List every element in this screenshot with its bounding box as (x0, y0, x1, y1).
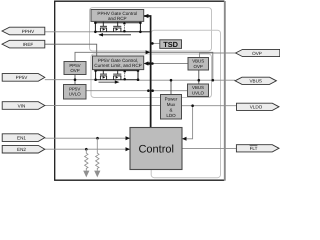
wire: PPHV pin to FET rail (45, 31, 96, 33)
svg-text:VLDO: VLDO (250, 105, 263, 110)
wire: VIN pin to Power Mux (45, 104, 161, 106)
arrow: PP5V forward current direction (99, 80, 120, 83)
svg-text:and RCP: and RCP (108, 16, 127, 21)
node: junction dots (74, 21, 214, 150)
svg-text:IREF: IREF (23, 42, 34, 47)
svg-text:PPHV: PPHV (22, 29, 35, 34)
block: PP5V OVP (64, 62, 86, 75)
pin OVP (236, 49, 280, 56)
container: PP5V power path region (91, 54, 212, 98)
ground (R2) (94, 171, 100, 178)
container: PPHV power path region (90, 8, 212, 51)
transistor Q2 (PPHV FET right) (113, 21, 121, 31)
transistor Q4 (PP5V FET right) (113, 70, 121, 80)
wire: TSD to VBUS bus (151, 42, 160, 44)
wire: PP5V pin to FET rail (45, 79, 96, 81)
pin EN2 (2, 145, 45, 153)
pin EN1 (2, 134, 45, 142)
block: VBUS OVP (188, 58, 209, 71)
arrow: sense line into control region (146, 50, 151, 54)
arrow: into Control right side (182, 137, 187, 141)
pin PPHV (2, 27, 45, 35)
block: Control (130, 128, 182, 170)
svg-text:Power: Power (165, 96, 178, 101)
wire: OVP pin to VBUS OVP block (200, 53, 236, 58)
svg-text:Current Limit, and RCP: Current Limit, and RCP (94, 63, 142, 68)
arrow: into PPHV gate control block (144, 14, 149, 18)
wire: VLDO branch down to Control (182, 106, 193, 139)
wire: stub VBUS OVP through VBUS wire to VBUS UVLO (198, 70, 200, 84)
pin IREF (2, 40, 45, 48)
resistor R2 (EN1 pulldown) (96, 138, 99, 170)
wire: VBUS vertical bus line 1 (144, 16, 151, 128)
transistor Q3 (PP5V FET left) (100, 70, 107, 80)
svg-text:PP5V: PP5V (16, 75, 29, 80)
block: TSD (160, 40, 182, 49)
wire: VBUS OVP to PP5V gate control (sense) (144, 63, 188, 65)
svg-text:TSD: TSD (163, 40, 178, 49)
block: PP5V UVLO (64, 85, 87, 100)
wire: stub PP5V OVP through PP5V wire to PP5V UVLO (74, 75, 76, 85)
svg-text:OVP: OVP (70, 68, 79, 73)
wire: VBUS main rail to VBUS pin (138, 79, 235, 81)
wire: PP5V UVLO to VBUS UVLO (86, 90, 188, 92)
pin VBUS (235, 77, 276, 84)
pin PP5V (2, 74, 45, 82)
wire: VLDO from Power Mux to pin (182, 105, 237, 107)
pin VLDO (237, 103, 280, 110)
pin FLT (active low) (236, 145, 279, 152)
wire: EN2 pin to Control (45, 148, 130, 150)
container: control region (151, 30, 220, 178)
PP5V pass FET pair: rails (96, 71, 138, 80)
block: PP5V Gate Control, Current Limit, and RCP (93, 56, 144, 70)
arrow: into PP5V gate control block (144, 61, 149, 65)
svg-text:OVP: OVP (252, 51, 262, 56)
IC chip boundary (55, 1, 225, 181)
wire: EN1 pin to Control (45, 137, 130, 139)
wire: PP5V OVP sense line to control region (75, 52, 213, 80)
transistor Q1 (PPHV FET left) (100, 21, 107, 31)
svg-text:EN1: EN1 (17, 135, 26, 140)
arrow: EN2 into Control (126, 147, 131, 151)
svg-text:VBUS: VBUS (249, 79, 262, 84)
arrow: EN1 into Control (126, 136, 131, 140)
svg-text:&: & (169, 107, 172, 112)
wire: stub VBUS wire to Power Mux (170, 80, 172, 94)
resistor R1 (EN2 pulldown) (85, 149, 88, 170)
svg-text:VIN: VIN (18, 103, 26, 108)
PPHV pass FET pair: rails (95, 23, 140, 32)
svg-text:Control: Control (138, 143, 173, 155)
arrow: PPHV reverse current direction (98, 33, 131, 36)
wire: IREF pin to PP5V gate control block (45, 44, 97, 56)
wire: FLT from Control to pin (182, 147, 236, 149)
ground (R1) (83, 171, 89, 178)
block: Power Mux and LDO (161, 95, 182, 120)
svg-text:Mux: Mux (167, 102, 176, 107)
svg-text:EN2: EN2 (17, 147, 26, 152)
svg-text:UVLO: UVLO (69, 92, 82, 97)
wire: PPHV rail extension to VBUS bus (140, 31, 150, 33)
block: PPHV Gate Control and RCP (91, 10, 144, 22)
pin VIN (2, 102, 45, 110)
svg-text:OVP: OVP (194, 64, 203, 69)
svg-text:UVLO: UVLO (192, 90, 205, 95)
block: VBUS UVLO (188, 84, 209, 97)
svg-text:FLT: FLT (250, 146, 258, 151)
svg-text:LDO: LDO (166, 113, 176, 118)
